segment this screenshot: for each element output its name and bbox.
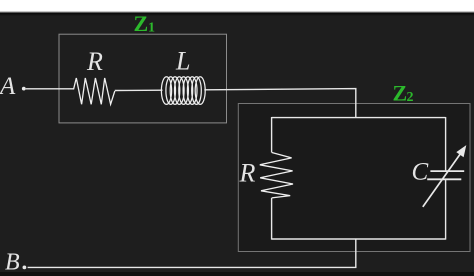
- svg-text:C: C: [412, 159, 429, 186]
- wire bottom edge: [272, 238, 446, 240]
- wire right branch bottom: [445, 180, 447, 240]
- svg-text:Z: Z: [134, 11, 149, 36]
- resistor R2 zigzag (vertical): [260, 153, 293, 198]
- svg-text:L: L: [175, 46, 190, 75]
- wire resistor to coil: [115, 89, 163, 91]
- wire right branch top: [445, 117, 447, 170]
- svg-text:B: B: [5, 249, 20, 275]
- wire left branch top: [271, 117, 273, 153]
- inductor L1 coil: [161, 77, 205, 105]
- box Z2: [238, 104, 470, 252]
- box Z1: [59, 34, 227, 123]
- bottom dark strip: [0, 272, 474, 276]
- label Z1: [134, 11, 156, 36]
- wire A to resistor: [26, 88, 74, 90]
- wire coil to Z2 drop: [204, 89, 355, 118]
- svg-text:A: A: [0, 73, 16, 100]
- wire to node B: [28, 239, 356, 267]
- svg-text:R: R: [86, 47, 103, 76]
- node A terminal dot: [22, 87, 26, 91]
- svg-text:R: R: [239, 159, 256, 188]
- node B terminal dot: [23, 266, 27, 270]
- svg-text:2: 2: [407, 90, 414, 105]
- label Z2: [393, 80, 414, 105]
- resistor R1 zigzag: [74, 78, 115, 104]
- capacitor arrow (variable): [423, 154, 461, 207]
- top white strip: [0, 0, 474, 11]
- svg-text:Z: Z: [393, 80, 408, 105]
- svg-text:1: 1: [148, 21, 155, 36]
- wire top edge: [272, 117, 446, 119]
- capacitor C plates: [427, 171, 464, 179]
- wire left branch bottom: [271, 198, 273, 240]
